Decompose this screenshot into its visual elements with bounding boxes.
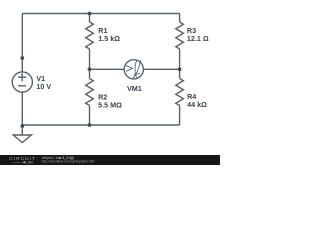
voltage source V1 circle	[12, 72, 32, 92]
V1 plus sign	[18, 76, 26, 78]
wire R2 top lead	[89, 69, 91, 78]
node dot ground junction	[20, 124, 24, 128]
svg-text:5.5 MΩ: 5.5 MΩ	[98, 100, 122, 109]
svg-text:1.5 kΩ: 1.5 kΩ	[98, 34, 120, 43]
node dot middle left	[88, 67, 92, 71]
VM1 dial arc	[135, 60, 137, 78]
wire R4 top lead	[179, 69, 181, 78]
resistor R1	[86, 22, 94, 49]
svg-text:12.1 Ω: 12.1 Ω	[187, 34, 209, 43]
voltmeter VM1 circle	[124, 60, 143, 79]
svg-text:—∿—■LAB: —∿—■LAB	[13, 161, 34, 165]
wire middle left (junction to voltmeter)	[90, 68, 125, 70]
wire middle right (voltmeter to junction)	[143, 68, 179, 70]
VM1 needle	[133, 60, 141, 79]
node dot R2 bottom	[88, 123, 92, 127]
resistor R4	[176, 79, 184, 106]
wire right column top lead of R3	[179, 14, 181, 23]
V1 minus sign	[18, 85, 26, 87]
footer watermark bar	[0, 155, 220, 165]
resistor R3	[176, 22, 184, 49]
resistor R2	[86, 79, 94, 106]
node dot R1 top	[88, 12, 92, 16]
wire left column	[21, 14, 23, 72]
wire bottom rail	[22, 124, 179, 126]
svg-text:10 V: 10 V	[36, 82, 51, 91]
wire below V1	[21, 92, 23, 126]
wire R1 bottom lead	[89, 49, 91, 69]
wire R2 bottom lead	[89, 106, 91, 126]
wire R3 bottom lead	[179, 49, 181, 69]
node dot middle right	[178, 67, 182, 71]
VM1 needle tick	[133, 73, 140, 75]
node dot above V1	[20, 56, 24, 60]
ground	[21, 126, 23, 135]
svg-text:http://circuitlab.com/c/p4np/l: http://circuitlab.com/c/p4np/lab3-330	[42, 159, 95, 163]
wire R4 bottom lead	[179, 106, 181, 126]
wire R1 top lead	[89, 14, 91, 23]
svg-text:44 kΩ: 44 kΩ	[187, 100, 207, 109]
svg-text:VM1: VM1	[127, 84, 142, 93]
VM1 arrow glyph	[126, 65, 132, 71]
wire top rail	[22, 13, 179, 15]
